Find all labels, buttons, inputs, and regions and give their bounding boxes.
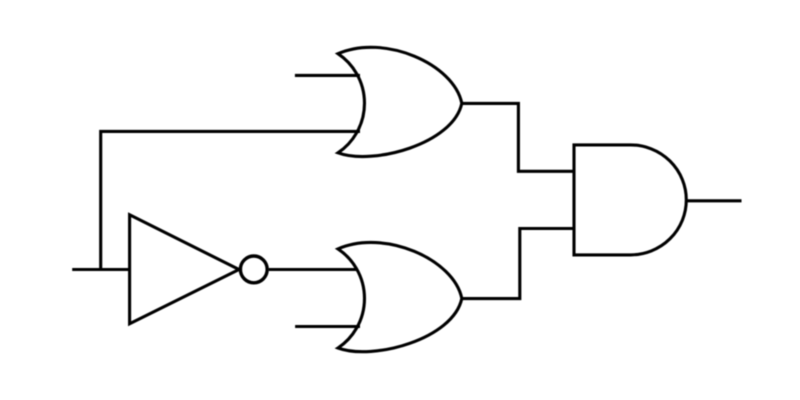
wire branch from input up to top OR input B	[101, 131, 360, 269]
wire OR1 output to AND gate top input	[462, 103, 574, 171]
and-gate AND1	[574, 145, 686, 255]
inverter U1 triangle	[130, 215, 239, 324]
wire AND output (circuit output)	[686, 199, 742, 202]
wire bottom OR input B stub	[295, 325, 360, 328]
inverter U1 bubble	[240, 256, 267, 283]
wire OR2 output to AND gate bottom input	[462, 229, 574, 299]
wire top OR input A stub	[295, 74, 360, 77]
or-gate OR2 (bottom)	[338, 242, 462, 351]
wire input stub (circuit input X)	[72, 268, 131, 271]
wire inverter output to bottom OR input A	[269, 268, 358, 271]
or-gate OR1 (top)	[338, 47, 462, 156]
